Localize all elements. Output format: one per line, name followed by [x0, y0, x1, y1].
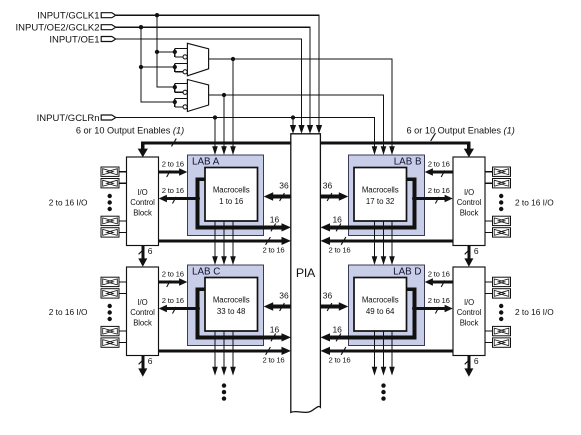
- svg-text:Block: Block: [460, 318, 479, 327]
- wire global line 2 below LAB D: [383, 331, 385, 368]
- I/O pad left row1 2: [101, 179, 119, 188]
- wire GCLK1 drop to muxes: [157, 15, 175, 87]
- bus slash LAB A output: [173, 197, 177, 204]
- I/O pad right row2 4: [493, 338, 511, 347]
- bus 6 left I/O row1 to row2: [141, 246, 144, 260]
- svg-text:6: 6: [474, 356, 479, 366]
- arrowhead 2-to-16 into LAB A: [179, 168, 187, 175]
- svg-text:33 to 48: 33 to 48: [217, 307, 246, 316]
- svg-text:49 to 64: 49 to 64: [366, 307, 395, 316]
- svg-text:2 to 16: 2 to 16: [162, 296, 184, 305]
- wire GCLK1 to centre column: [116, 15, 319, 126]
- svg-text:2 to 16 I/O: 2 to 16 I/O: [49, 197, 88, 207]
- bus slash 36 LAB A: [280, 193, 285, 201]
- wire global line 3 below LAB D: [391, 331, 393, 368]
- svg-text:6 or 10 Output Enables (1): 6 or 10 Output Enables (1): [76, 126, 184, 136]
- svg-text:16: 16: [332, 324, 342, 334]
- bus slash 36 LAB C: [280, 303, 285, 311]
- svg-text:INPUT/GCLRn: INPUT/GCLRn: [37, 113, 100, 124]
- svg-text:2 to 16: 2 to 16: [329, 356, 351, 365]
- bus 6-or-10 output enables row1: [143, 143, 469, 150]
- wire mux2 output branch to LAB A: [223, 95, 225, 147]
- bus slash LAB A input: [167, 170, 171, 177]
- wire pad-left row2-1: [119, 281, 127, 283]
- wire mux1 output branch to LAB A: [232, 59, 234, 147]
- wire 2-to-16 I/O to LAB A: [159, 171, 180, 174]
- svg-text:6: 6: [148, 246, 153, 256]
- arrowhead 2-to-16 row1 left into PIA: [282, 237, 292, 245]
- arrowhead global line 1 into LAB C: [212, 256, 218, 265]
- arrowhead 36 into LAB B: [339, 192, 349, 200]
- wire 2-to-16 I/O to LAB D: [432, 281, 453, 284]
- junction OE2 drop: [139, 25, 143, 29]
- ellipsis right pads row1: [499, 194, 503, 198]
- wire global line 1 LAB B to LAB D: [374, 221, 376, 258]
- arrowhead 2-to-16 into left I/O block A: [159, 195, 167, 202]
- wire global line 2 LAB A to LAB C: [223, 221, 225, 258]
- svg-text:6: 6: [148, 356, 153, 366]
- wire pad-left row2-3: [119, 330, 127, 332]
- svg-text:2 to 16 I/O: 2 to 16 I/O: [515, 307, 554, 317]
- svg-text:36: 36: [323, 181, 333, 191]
- arrowhead GCLK1 into PIA: [316, 125, 322, 134]
- junction mux2 in2: [173, 100, 177, 104]
- arrowhead global line 2 below LAB D: [381, 367, 387, 376]
- LAB block B: [349, 155, 425, 236]
- svg-text:LAB A: LAB A: [192, 157, 220, 168]
- bus 6 right I/O row1 to row2: [467, 246, 470, 260]
- wire OE1 to centre column: [116, 39, 302, 126]
- bus 36 PIA to LAB A: [273, 195, 292, 199]
- bus slash LAB B input: [441, 170, 445, 177]
- arrowhead global line 2 into LAB C: [221, 256, 227, 265]
- bus slash row1 right: [341, 237, 346, 245]
- bus-width slash OE bus right: [431, 133, 436, 141]
- arrowhead 2-to-16 into LAB B: [425, 168, 433, 175]
- bus 6 right I/O row2 down: [467, 356, 470, 370]
- mux 2 (global clear/OE): [187, 80, 208, 112]
- wire 2-to-16 I/O to LAB B: [432, 171, 453, 174]
- I/O pad right row2 3: [493, 326, 511, 335]
- wire global line 1 LAB A to LAB C: [214, 221, 216, 258]
- junction mux1 in2 b: [173, 65, 177, 69]
- bus 2-to-16 right I/O to PIA row2: [330, 349, 454, 352]
- wire 2-to-16 LAB D to I/O block: [414, 307, 445, 310]
- arrowhead OE2/GCLK2 into PIA: [307, 125, 313, 134]
- macrocells box LAB C: [205, 278, 258, 332]
- arrowhead global line 3 below LAB C: [230, 367, 236, 376]
- wire pad-right row2-2: [485, 292, 493, 294]
- svg-text:INPUT/GCLK1: INPUT/GCLK1: [37, 11, 99, 22]
- junction GCLRn-LABA branch: [213, 115, 217, 119]
- bus 6 left I/O row2 down: [141, 356, 144, 370]
- junction feedback-to-IO LAB D: [412, 306, 417, 311]
- arrowhead 2-to-16 into left I/O block C: [159, 305, 167, 312]
- bus 36 PIA to LAB B: [321, 195, 340, 199]
- LAB block A: [188, 155, 264, 236]
- arrowhead 16-bus LAB B into PIA: [321, 223, 331, 231]
- svg-text:INPUT/OE2/GCLK2: INPUT/OE2/GCLK2: [16, 23, 100, 34]
- arrowhead global line 3 into LAB D: [389, 256, 395, 265]
- svg-text:INPUT/OE1: INPUT/OE1: [49, 34, 99, 45]
- wire global line 1 below LAB C: [214, 331, 216, 368]
- svg-text:2 to 16: 2 to 16: [162, 160, 184, 169]
- svg-text:2 to 16: 2 to 16: [428, 296, 450, 305]
- wire mux2 output: [209, 95, 384, 147]
- wire GCLRn branch down to PIA: [292, 118, 294, 127]
- junction mux2 output to LAB A: [222, 93, 226, 97]
- svg-text:LAB C: LAB C: [192, 267, 220, 278]
- ellipsis below LAB C: [222, 383, 226, 387]
- I/O pad left row1 1: [101, 167, 119, 176]
- wire mux2 input2 net: [175, 99, 188, 107]
- arrowhead global line 2 into LAB A: [221, 146, 227, 155]
- LAB block D: [349, 265, 425, 346]
- ellipsis right pads row2: [499, 304, 503, 308]
- arrowhead 36 into LAB C: [264, 302, 274, 310]
- bus slash row2 left: [266, 347, 271, 355]
- svg-text:LAB B: LAB B: [394, 157, 422, 168]
- I/O control block left row1: [127, 157, 159, 246]
- svg-text:2 to 16 I/O: 2 to 16 I/O: [49, 307, 88, 317]
- wire macrocell feedback 16-bus LAB B: [330, 179, 415, 227]
- ellipsis left pads row1: [108, 194, 112, 198]
- arrowhead 16-bus LAB A into PIA: [282, 223, 292, 231]
- arrowhead global line 3 below LAB D: [389, 367, 395, 376]
- wire pad-right row1-4: [485, 231, 493, 233]
- svg-text:2 to 16: 2 to 16: [329, 246, 351, 255]
- I/O pad left row2 4: [101, 338, 119, 347]
- LAB block C: [188, 265, 264, 346]
- macrocells box LAB B: [354, 168, 407, 222]
- svg-text:Macrocells: Macrocells: [362, 296, 399, 305]
- wire 2-to-16 LAB C to I/O block: [167, 307, 198, 310]
- junction mux1 in1 a: [155, 50, 159, 54]
- junction GCLK1 drop: [155, 13, 159, 17]
- arrowhead global line 1 below LAB D: [372, 367, 378, 376]
- I/O pad left row2 1: [101, 277, 119, 286]
- I/O control block right row1: [453, 157, 485, 246]
- input pin INPUT/GCLK1: [101, 13, 116, 18]
- svg-text:Block: Block: [133, 318, 152, 327]
- junction feedback-to-IO LAB C: [195, 306, 200, 311]
- wire pad-left row2-2: [119, 292, 127, 294]
- wire 2-to-16 I/O to LAB C: [159, 281, 180, 284]
- arrowhead 2-to-16 into right I/O block B: [445, 195, 453, 202]
- svg-text:16: 16: [332, 214, 342, 224]
- wire global line 3 LAB A to LAB C: [232, 221, 234, 258]
- svg-text:16: 16: [270, 214, 280, 224]
- macrocells box LAB D: [354, 278, 407, 332]
- wire macrocell feedback 16-bus LAB D: [330, 289, 415, 337]
- svg-text:2 to 16 I/O: 2 to 16 I/O: [515, 197, 554, 207]
- wire 2-to-16 LAB B to I/O block: [414, 197, 445, 200]
- svg-text:PIA: PIA: [296, 266, 316, 280]
- bus slash LAB C output: [173, 307, 177, 314]
- bus 36 PIA to LAB D: [321, 305, 340, 309]
- wire global line 2 LAB B to LAB D: [383, 221, 385, 258]
- arrowhead OE bus into right I/O block: [464, 149, 474, 158]
- bus slash 16-bus LAB C: [271, 334, 276, 342]
- I/O pad right row2 2: [493, 289, 511, 298]
- wire mux1 input2 net: [141, 63, 187, 71]
- svg-text:I/O: I/O: [137, 298, 147, 307]
- I/O pad right row1 2: [493, 179, 511, 188]
- svg-text:2 to 16: 2 to 16: [263, 246, 285, 255]
- svg-text:Control: Control: [130, 198, 155, 207]
- I/O pad left row2 2: [101, 289, 119, 298]
- wire pad-right row1-2: [485, 182, 493, 184]
- svg-text:2 to 16: 2 to 16: [162, 270, 184, 279]
- svg-text:17 to 32: 17 to 32: [366, 197, 395, 206]
- junction mux1 in2 a: [139, 65, 143, 69]
- I/O control block right row2: [453, 267, 485, 356]
- wire pad-right row1-3: [485, 220, 493, 222]
- svg-text:Control: Control: [457, 308, 482, 317]
- I/O control block left row2: [127, 267, 159, 356]
- svg-text:LAB D: LAB D: [393, 267, 421, 278]
- svg-text:6 or 10 Output Enables (1): 6 or 10 Output Enables (1): [407, 126, 515, 136]
- bus slash 36 LAB D: [327, 303, 332, 311]
- arrowhead 2-to-16 into LAB C: [179, 278, 187, 285]
- bus slash 36 LAB B: [327, 193, 332, 201]
- junction mux2 in1: [173, 85, 177, 89]
- arrowhead GCLRn into PIA: [290, 125, 296, 134]
- inverter bubble mux2 in1: [183, 90, 187, 94]
- bus slash LAB C input: [167, 280, 171, 287]
- svg-text:Block: Block: [460, 208, 479, 217]
- arrowhead 36 into LAB D: [339, 302, 349, 310]
- svg-text:2 to 16: 2 to 16: [162, 186, 184, 195]
- input pin INPUT/OE1: [101, 37, 116, 42]
- I/O pad right row2 1: [493, 277, 511, 286]
- arrowhead 2-to-16 row2 right into PIA: [321, 347, 331, 355]
- wire pad-right row1-1: [485, 171, 493, 173]
- wire global line 2 below LAB C: [223, 331, 225, 368]
- svg-text:6: 6: [474, 246, 479, 256]
- arrowhead global line 1 into LAB D: [372, 256, 378, 265]
- inverter bubble mux1 in1: [183, 55, 187, 59]
- wire pad-right row2-4: [485, 342, 493, 344]
- wire pad-right row2-1: [485, 281, 493, 283]
- wire macrocell feedback 16-bus LAB A: [198, 179, 283, 227]
- wire global line 1 below LAB D: [374, 331, 376, 368]
- bus slash row2 right: [341, 347, 346, 355]
- svg-text:I/O: I/O: [137, 188, 147, 197]
- arrowhead global line 3 into LAB B: [389, 146, 395, 155]
- arrowhead OE bus into left I/O block: [138, 149, 148, 158]
- wire pad-left row1-4: [119, 231, 127, 233]
- I/O pad right row1 1: [493, 167, 511, 176]
- wire pad-left row1-1: [119, 171, 127, 173]
- wire macrocell feedback 16-bus LAB C: [198, 289, 283, 337]
- wire mux2 input1 net: [175, 84, 188, 93]
- arrowhead 16-bus LAB C into PIA: [282, 333, 292, 341]
- svg-text:Block: Block: [133, 208, 152, 217]
- svg-text:36: 36: [279, 181, 289, 191]
- bus slash LAB D output: [435, 307, 439, 314]
- bus 2-to-16 left I/O to PIA row1: [159, 239, 283, 242]
- svg-text:I/O: I/O: [464, 298, 474, 307]
- I/O pad left row1 4: [101, 228, 119, 237]
- arrowhead global line 1 into LAB A: [212, 146, 218, 155]
- wire pad-left row2-4: [119, 342, 127, 344]
- I/O pad right row1 4: [493, 228, 511, 237]
- wire OE2/GCLK2 to centre column: [116, 27, 310, 126]
- bus slash LAB D input: [441, 280, 445, 287]
- bus 2-to-16 left I/O to PIA row2: [159, 349, 283, 352]
- junction GCLRn-PIA branch: [291, 115, 295, 119]
- junction feedback-to-IO LAB A: [195, 196, 200, 201]
- junction mux1 output to LAB A: [231, 57, 235, 61]
- arrowhead 36 into LAB A: [264, 192, 274, 200]
- input pin INPUT/GCLRn: [101, 115, 116, 120]
- arrowhead global line 1 into LAB B: [372, 146, 378, 155]
- arrowhead OE1 into PIA: [298, 125, 304, 134]
- arrowhead 2-to-16 row1 right into PIA: [321, 237, 331, 245]
- svg-text:Macrocells: Macrocells: [213, 186, 250, 195]
- bus slash row1 left: [266, 237, 271, 245]
- wire GCLRn branch to LAB A: [214, 118, 216, 148]
- junction feedback-to-IO LAB B: [412, 196, 417, 201]
- arrowhead 2-to-16 row2 left into PIA: [282, 347, 292, 355]
- svg-text:16: 16: [270, 324, 280, 334]
- svg-text:Macrocells: Macrocells: [213, 296, 250, 305]
- svg-text:Control: Control: [130, 308, 155, 317]
- arrowhead global line 2 into LAB B: [381, 146, 387, 155]
- wire pad-left row1-2: [119, 182, 127, 184]
- wire pad-left row1-3: [119, 220, 127, 222]
- bus-width slash OE bus left: [172, 139, 177, 147]
- wire global line 3 below LAB C: [232, 331, 234, 368]
- arrowhead global line 3 into LAB C: [230, 256, 236, 265]
- PIA block: [291, 134, 321, 413]
- input pin INPUT/OE2/GCLK2: [101, 25, 116, 30]
- I/O pad left row1 3: [101, 216, 119, 225]
- inverter bubble mux2 in2: [183, 105, 187, 109]
- svg-text:2 to 16: 2 to 16: [263, 356, 285, 365]
- svg-text:2 to 16: 2 to 16: [428, 160, 450, 169]
- bus slash LAB B output: [435, 197, 439, 204]
- bus 36 PIA to LAB C: [273, 305, 292, 309]
- arrowhead global line 2 into LAB D: [381, 256, 387, 265]
- svg-text:Control: Control: [457, 198, 482, 207]
- arrowhead global line 3 into LAB A: [230, 146, 236, 155]
- svg-text:36: 36: [279, 291, 289, 301]
- arrowhead 2-to-16 into right I/O block D: [445, 305, 453, 312]
- bus slash 16-bus LAB A: [271, 224, 276, 232]
- ellipsis left pads row2: [108, 304, 112, 308]
- arrowhead global line 1 below LAB C: [212, 367, 218, 376]
- wire global line 3 LAB B to LAB D: [391, 221, 393, 258]
- mux 1 (global clock): [187, 43, 208, 76]
- wire mux1 input1 net: [157, 48, 187, 57]
- svg-text:I/O: I/O: [464, 188, 474, 197]
- bus slash 16-bus LAB D: [336, 334, 341, 342]
- bus 2-to-16 right I/O to PIA row1: [330, 239, 454, 242]
- svg-text:36: 36: [323, 291, 333, 301]
- inverter bubble mux1 in2: [183, 70, 187, 74]
- arrowhead 2-to-16 into LAB D: [425, 278, 433, 285]
- svg-text:2 to 16: 2 to 16: [428, 270, 450, 279]
- macrocells box LAB A: [205, 168, 258, 222]
- svg-text:Macrocells: Macrocells: [362, 186, 399, 195]
- svg-text:2 to 16: 2 to 16: [428, 186, 450, 195]
- arrowhead global line 2 below LAB C: [221, 367, 227, 376]
- junction mux1 in1 b: [173, 50, 177, 54]
- I/O pad right row1 3: [493, 216, 511, 225]
- wire mux1 output: [209, 59, 392, 147]
- wire pad-right row2-3: [485, 330, 493, 332]
- wire GCLRn horizontal: [116, 118, 375, 148]
- I/O pad left row2 3: [101, 326, 119, 335]
- svg-text:1 to 16: 1 to 16: [219, 197, 244, 206]
- wire 2-to-16 LAB A to I/O block: [167, 197, 198, 200]
- ellipsis below LAB D: [381, 383, 385, 387]
- arrowhead 16-bus LAB D into PIA: [321, 333, 331, 341]
- bus slash 16-bus LAB B: [336, 224, 341, 232]
- wire OE2 drop to muxes: [141, 27, 175, 102]
